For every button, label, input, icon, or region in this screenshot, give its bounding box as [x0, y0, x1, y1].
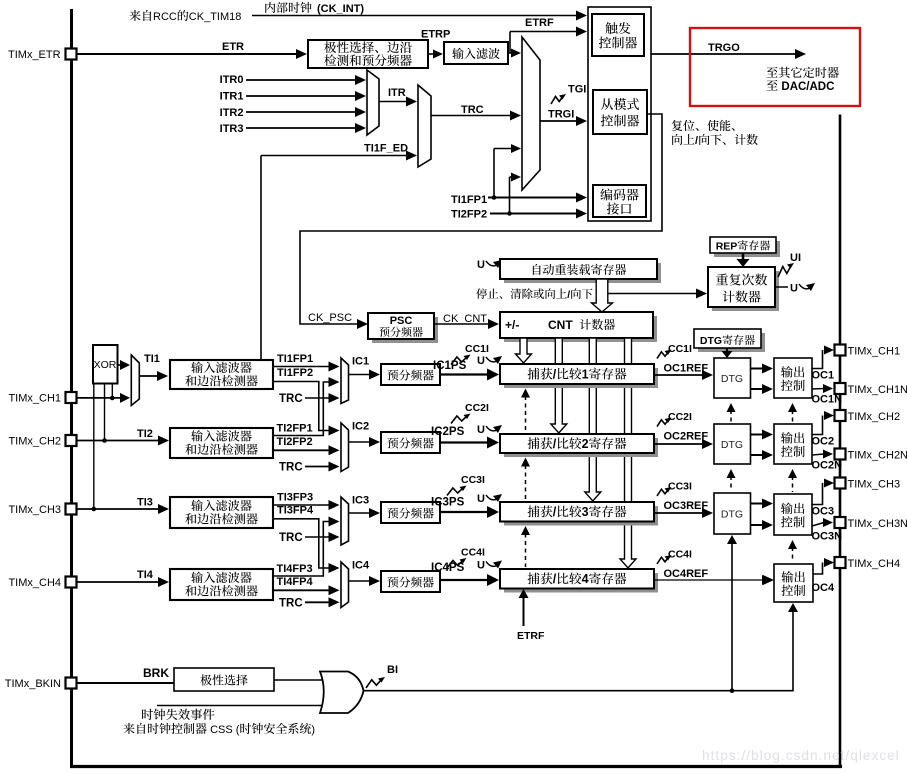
- svg-text:OC1REF: OC1REF: [664, 363, 709, 375]
- wire clock failure event input: [157, 705, 332, 707]
- svg-text:TIMx_CH4: TIMx_CH4: [8, 577, 61, 589]
- wire OC4REF long: [654, 579, 763, 581]
- wire ETRF to trigger controller: [509, 32, 511, 54]
- block output control 输出控制 3: [774, 494, 812, 535]
- label 停止、清除或向上/向下: [476, 288, 487, 299]
- wires DTG1 to output control: [751, 368, 764, 370]
- svg-text:ITR: ITR: [388, 87, 406, 99]
- wire TIMx_CH1 to XOR/mux: [77, 397, 121, 399]
- pin TIMx_CH1N: [835, 383, 846, 394]
- block REP register REP寄存器: [714, 241, 780, 257]
- svg-text:IC3: IC3: [352, 495, 369, 507]
- block polarity select 极性选择: [174, 668, 274, 691]
- wire OC4 to pin: [813, 563, 823, 575]
- wire ETRF to mux: [508, 52, 512, 54]
- svg-text:OC2REF: OC2REF: [664, 431, 709, 443]
- svg-text:+/-: +/-: [505, 318, 519, 332]
- svg-text:ITR1: ITR1: [220, 91, 244, 103]
- svg-text:CNT: CNT: [548, 318, 573, 332]
- wires DTG3 to output control: [751, 503, 764, 505]
- svg-text:TIMx_CH2: TIMx_CH2: [8, 436, 61, 448]
- svg-text:TIMx_CH3N: TIMx_CH3N: [848, 518, 907, 530]
- block CNT counter CNT计数器: [504, 316, 657, 342]
- block capture/compare register 捕获/比较1寄存器: [504, 368, 658, 388]
- svg-text:CC1I: CC1I: [465, 343, 489, 355]
- wire slave controller to PSC (CK_PSC): [300, 114, 662, 324]
- svg-text:/: /: [553, 437, 557, 451]
- mux IC4 select: [341, 562, 349, 608]
- block prescaler 预分频器 IC3: [381, 502, 440, 523]
- block trigger controller 触发控制器: [592, 14, 644, 56]
- mux ITR select: [367, 70, 379, 135]
- svg-text:PSC: PSC: [390, 315, 413, 327]
- wire BI branch to DTG3: [731, 543, 733, 691]
- interrupt CC2I (capture side): [451, 415, 469, 424]
- svg-text:OC4REF: OC4REF: [664, 568, 709, 580]
- svg-text:TRGI: TRGI: [548, 109, 574, 121]
- svg-text:TI3: TI3: [137, 497, 153, 509]
- interrupt UI: [778, 264, 792, 277]
- wires DTG2 to output control: [751, 434, 764, 436]
- frame left border: [70, 9, 73, 768]
- wire CK_INT to trigger controller: [252, 15, 577, 17]
- svg-text:TRC: TRC: [279, 597, 303, 609]
- label 内部时钟 (CK_INT): [265, 2, 275, 13]
- svg-text:CC3I: CC3I: [668, 481, 692, 493]
- svg-text:IC4: IC4: [352, 560, 370, 572]
- svg-text:ITR3: ITR3: [220, 123, 244, 135]
- block prescaler 预分频器 IC2: [381, 432, 440, 453]
- mux TRC select: [418, 85, 431, 167]
- svg-text:OC3N: OC3N: [812, 531, 843, 543]
- right boundary bus line: [839, 115, 842, 769]
- block repetition counter 重复次数计数器: [712, 271, 779, 311]
- svg-text:CC2I: CC2I: [668, 411, 692, 423]
- svg-text:TI1FP2: TI1FP2: [277, 367, 313, 379]
- svg-text:TIMx_CH2N: TIMx_CH2N: [848, 450, 907, 462]
- dashed enable arrows into output control bottoms: [788, 403, 797, 412]
- svg-text:TIMx_CH3: TIMx_CH3: [8, 504, 61, 516]
- svg-text:TI3FP4: TI3FP4: [277, 504, 314, 516]
- label 复位、使能、向上/向下、计数: [672, 120, 683, 131]
- svg-text:): ): [311, 724, 315, 736]
- svg-text:BI: BI: [387, 664, 398, 676]
- svg-text:TI4FP3: TI4FP3: [277, 563, 313, 575]
- svg-text:OC2: OC2: [812, 436, 835, 448]
- svg-text:TI2: TI2: [137, 428, 153, 440]
- event U output: [775, 286, 788, 288]
- block output control 输出控制 1: [774, 358, 812, 398]
- svg-text:TIMx_CH4: TIMx_CH4: [848, 558, 901, 570]
- svg-text:IC1: IC1: [352, 356, 369, 368]
- pin TIMx_CH2N: [835, 449, 846, 460]
- container controller block: [588, 7, 651, 221]
- svg-text:https://blog.csdn.net/qlexcel: https://blog.csdn.net/qlexcel: [702, 748, 900, 763]
- svg-text:CC4I: CC4I: [461, 547, 485, 559]
- mux TI1 select: [131, 355, 139, 406]
- svg-text:3: 3: [582, 505, 589, 519]
- svg-text:TI1: TI1: [144, 353, 160, 365]
- bus CNT to capture2 (hollow arrow): [551, 338, 567, 433]
- svg-text:TIMx_BKIN: TIMx_BKIN: [5, 678, 61, 690]
- svg-text:U: U: [477, 424, 485, 436]
- block input filter & edge detector 输入滤波器和边沿检测器 ch3: [170, 497, 273, 528]
- highlight red box: [690, 28, 860, 106]
- bus CNT to capture1 (hollow arrow): [516, 338, 532, 363]
- svg-text:U: U: [477, 560, 485, 572]
- bus auto-reload to CNT (hollow arrow): [592, 279, 613, 312]
- svg-text:TI2FP1: TI2FP1: [277, 423, 313, 435]
- gate break OR: [320, 672, 364, 714]
- label 时钟失效事件: [142, 709, 153, 720]
- pin TIMx_CH3: [835, 478, 846, 489]
- svg-text:TIMx_CH3: TIMx_CH3: [848, 479, 901, 491]
- arrow REP to repetition counter: [742, 253, 745, 260]
- svg-text:OC3REF: OC3REF: [664, 500, 709, 512]
- svg-text:U: U: [790, 283, 798, 295]
- svg-text:OC4: OC4: [812, 582, 836, 594]
- svg-text:CC4I: CC4I: [668, 549, 692, 561]
- pin TIMx_CH1: [835, 345, 846, 356]
- svg-text:U: U: [477, 493, 485, 505]
- block input filter & edge detector 输入滤波器和边沿检测器 ch2: [170, 428, 273, 458]
- svg-text:TRC: TRC: [279, 462, 303, 474]
- svg-text:DAC/ADC: DAC/ADC: [781, 81, 834, 93]
- block capture/compare register 捕获/比较2寄存器: [504, 438, 658, 457]
- wire XOR output to TI1 mux: [118, 364, 122, 366]
- svg-text:4: 4: [582, 572, 589, 586]
- svg-text:(CK_INT): (CK_INT): [317, 3, 364, 15]
- mux IC1 select: [341, 358, 349, 404]
- wire OC3N to pin: [812, 523, 824, 527]
- block input filter & edge detector 输入滤波器和边沿检测器 ch1: [170, 360, 273, 389]
- svg-text:TI3FP3: TI3FP3: [277, 492, 313, 504]
- svg-text:TIMx_CH2: TIMx_CH2: [848, 411, 901, 423]
- block encoder interface 编码器接口: [593, 185, 646, 217]
- interrupt CC4I (capture side): [447, 559, 465, 568]
- svg-text:DTG: DTG: [721, 439, 743, 451]
- block prescaler 预分频器 IC1: [381, 364, 440, 385]
- svg-text:TI1FP1: TI1FP1: [451, 194, 487, 206]
- block slave mode controller 从模式控制器: [593, 90, 647, 134]
- interrupt CC3I (capture side): [447, 487, 465, 496]
- svg-text:ITR2: ITR2: [220, 107, 244, 119]
- pin TIMx_CH3N: [835, 517, 846, 528]
- svg-text:/: /: [695, 135, 698, 147]
- arrow DTG register to DTG1: [726, 348, 728, 352]
- svg-text:ETRP: ETRP: [421, 29, 450, 41]
- pin TIMx_CH2: [835, 410, 846, 421]
- svg-text:ETRF: ETRF: [525, 17, 554, 29]
- dashed capture event arrows between capture registers: [521, 389, 530, 398]
- wires XOR taps from CH1/CH2/CH3: [111, 384, 113, 399]
- svg-text:CK_TIM18: CK_TIM18: [189, 11, 242, 23]
- block input filter 输入滤波: [444, 42, 508, 64]
- block capture/compare register 捕获/比较4寄存器: [504, 573, 658, 593]
- svg-text:TIMx_CH1: TIMx_CH1: [8, 393, 61, 405]
- interrupt CC2I (compare side): [657, 419, 670, 427]
- interrupt BI: [366, 678, 383, 688]
- svg-text:IC2PS: IC2PS: [431, 426, 465, 438]
- svg-text:UI: UI: [790, 252, 801, 264]
- svg-text:/: /: [553, 505, 557, 519]
- svg-text:/: /: [567, 289, 570, 301]
- block polarity selection 极性选择、边沿检测和预分频器: [308, 40, 428, 68]
- wire ETRP: [428, 53, 434, 55]
- label 至其它定时器 至DAC/ADC: [767, 67, 778, 77]
- wires ITR0-ITR3 into mux: [246, 79, 356, 81]
- svg-text:TRC: TRC: [279, 393, 303, 405]
- svg-text:TGI: TGI: [568, 84, 586, 96]
- wire OC3 to pin: [812, 483, 823, 505]
- label 来自时钟控制器CSS(时钟安全系统): [123, 723, 134, 734]
- mux TRGI select: [522, 37, 540, 190]
- svg-text:OC2N: OC2N: [812, 460, 843, 472]
- dashed enable arrows into DTG bottoms: [727, 403, 736, 412]
- wire OC1 to pin: [812, 350, 823, 369]
- svg-text:TIMx_ETR: TIMx_ETR: [8, 49, 61, 61]
- svg-text:TRGO: TRGO: [708, 42, 740, 54]
- svg-text:TI2FP2: TI2FP2: [277, 436, 313, 448]
- wire update to repetition counter: [608, 293, 697, 295]
- svg-text:OC3: OC3: [812, 506, 835, 518]
- svg-text:IC2: IC2: [352, 421, 369, 433]
- svg-text:ETRF: ETRF: [517, 630, 545, 642]
- svg-text:TIMx_CH1N: TIMx_CH1N: [848, 384, 907, 396]
- bus CNT to capture3 (hollow arrow): [585, 338, 601, 501]
- interrupt CC1I (compare side): [657, 351, 670, 359]
- block DTG 3: [714, 493, 751, 534]
- svg-text:RCC: RCC: [153, 11, 177, 23]
- svg-text:CC1I: CC1I: [668, 343, 692, 355]
- svg-text:XOR: XOR: [94, 359, 117, 371]
- svg-text:BRK: BRK: [143, 666, 169, 680]
- interrupt TGI: [551, 95, 564, 104]
- svg-text:IC3PS: IC3PS: [431, 497, 465, 509]
- block DTG register DTG寄存器: [698, 333, 765, 352]
- block auto-reload register 自动重装载寄存器: [504, 263, 661, 283]
- block prescaler 预分频器 IC4: [381, 571, 440, 592]
- block XOR: [93, 345, 118, 384]
- interrupt CC3I (compare side): [657, 488, 670, 496]
- svg-text:TI1F_ED: TI1F_ED: [364, 143, 408, 155]
- mux IC2 select: [341, 423, 349, 472]
- wire to break gate: [274, 679, 332, 681]
- block PSC prescaler PSC预分频器: [372, 317, 438, 343]
- interrupt CC1I (capture side): [451, 356, 469, 365]
- svg-text:TRC: TRC: [461, 104, 484, 116]
- svg-text:CK_PSC: CK_PSC: [308, 312, 352, 324]
- svg-text:TI1FP1: TI1FP1: [277, 353, 313, 365]
- svg-text:ITR0: ITR0: [220, 74, 244, 86]
- svg-text:U: U: [477, 355, 485, 367]
- block output control 输出控制 2: [774, 424, 812, 464]
- svg-text:DTG: DTG: [721, 509, 743, 521]
- svg-text:TI4: TI4: [137, 569, 154, 581]
- svg-text:TRC: TRC: [279, 532, 303, 544]
- wire OC2N to pin: [812, 454, 824, 455]
- svg-text:ETR: ETR: [222, 41, 244, 53]
- frame bottom border: [70, 765, 842, 768]
- svg-text:DTG: DTG: [700, 335, 722, 347]
- svg-text:TI2FP2: TI2FP2: [451, 209, 487, 221]
- svg-text:/: /: [553, 368, 557, 382]
- wire BI to output stages: [363, 612, 793, 691]
- block input filter & edge detector 输入滤波器和边沿检测器 ch4: [170, 569, 273, 600]
- block capture/compare register 捕获/比较3寄存器: [504, 506, 658, 526]
- svg-text:2: 2: [582, 437, 589, 451]
- svg-text:TI4FP4: TI4FP4: [277, 576, 314, 588]
- svg-text:DTG: DTG: [721, 373, 743, 385]
- bus CNT to capture4 (hollow arrow): [620, 338, 636, 568]
- pin TIMx_CH4: [835, 557, 846, 568]
- svg-text:OC1N: OC1N: [812, 394, 843, 406]
- wire OC2 to pin: [812, 416, 823, 435]
- mux IC3 select: [341, 497, 349, 545]
- block DTG 2: [714, 424, 751, 464]
- block output control 输出控制 4: [774, 564, 813, 602]
- svg-text:TIMx_CH1: TIMx_CH1: [848, 346, 901, 358]
- svg-text:REP: REP: [716, 241, 738, 253]
- svg-text:CSS (: CSS (: [210, 724, 240, 736]
- label 来自RCC的CK_TIM18: [129, 10, 140, 21]
- svg-text:OC1: OC1: [812, 370, 835, 382]
- svg-text:CC2I: CC2I: [465, 402, 489, 414]
- block DTG 1: [714, 358, 751, 398]
- svg-text:U: U: [477, 259, 485, 271]
- svg-text:/: /: [553, 572, 557, 586]
- svg-text:1: 1: [582, 368, 589, 382]
- svg-text:CC3I: CC3I: [461, 474, 485, 486]
- wire OC1N to pin: [812, 388, 824, 391]
- interrupt CC4I (compare side): [657, 556, 670, 564]
